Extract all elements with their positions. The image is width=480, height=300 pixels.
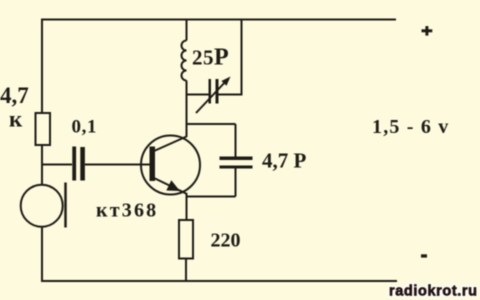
svg-text:к: к	[9, 107, 23, 132]
svg-text:кт368: кт368	[96, 200, 158, 222]
svg-text:radiokrot.ru: radiokrot.ru	[389, 284, 478, 300]
svg-text:1,5 - 6 v: 1,5 - 6 v	[372, 116, 449, 138]
svg-text:4,7 Р: 4,7 Р	[262, 149, 307, 173]
svg-text:220: 220	[211, 230, 241, 252]
svg-text:4,7: 4,7	[0, 83, 29, 108]
svg-text:25Р: 25Р	[192, 45, 229, 71]
svg-text:0,1: 0,1	[72, 117, 98, 138]
